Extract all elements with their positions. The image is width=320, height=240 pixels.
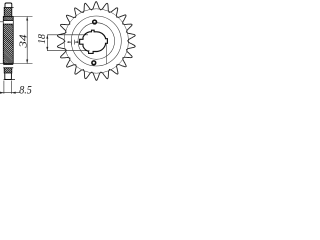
bottom tooth xyxy=(5,73,12,80)
svg-text:18: 18 xyxy=(37,34,48,44)
bottom root line xyxy=(4,79,15,81)
tooth root circle xyxy=(64,9,128,73)
hub outline xyxy=(3,17,13,64)
dimension 18 xyxy=(46,35,89,51)
plate lower band xyxy=(4,64,12,74)
side view cross-section (left) xyxy=(3,3,15,80)
hub circle xyxy=(78,23,115,60)
dimension 8.5 xyxy=(0,81,20,94)
spline bore xyxy=(80,30,108,53)
plate upper band xyxy=(4,7,12,16)
web width dimension arrows xyxy=(67,40,79,45)
dimension 34 xyxy=(0,17,33,64)
bolt hole top xyxy=(93,20,97,24)
top tooth xyxy=(5,3,12,7)
section trace line xyxy=(105,43,107,64)
svg-text:8.5: 8.5 xyxy=(19,84,32,96)
bolt hole bands in section view xyxy=(0,21,13,68)
top tooth root line xyxy=(4,6,14,8)
web recess circle xyxy=(71,16,121,66)
bolt hole bottom xyxy=(92,61,96,65)
svg-text:34: 34 xyxy=(19,34,30,49)
sprocket toothed outer profile xyxy=(57,2,135,81)
